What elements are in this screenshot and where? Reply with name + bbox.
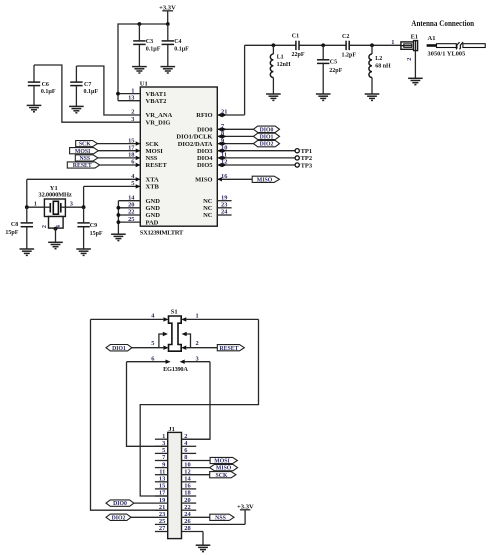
svg-text:1: 1 [162,433,165,440]
svg-text:TP3: TP3 [301,162,313,169]
wire S1 pin4 to J1 pin21 [91,319,168,510]
U1 pin 20 GND [118,202,160,213]
J1 pin 10 [182,461,210,468]
svg-text:4: 4 [151,312,155,319]
ground (crystal case) [48,242,63,248]
capacitor C1 22pF [292,34,305,58]
crystal Y1 32.0000MHz [38,185,72,217]
ground (L2) [365,94,380,100]
wire XTB riser [83,186,85,207]
svg-text:MOSI: MOSI [214,459,230,465]
svg-text:2: 2 [41,225,48,228]
capacitor C5 22pF [317,45,343,93]
svg-text:23: 23 [221,202,227,209]
net tag NSS [75,155,98,162]
J1 pin 6 [182,447,197,454]
svg-text:24: 24 [184,511,191,518]
J1 pin 14 [182,476,197,483]
capacitor C8 15pF [5,207,33,249]
S1 pin 2 [181,340,217,350]
ground (C7) [69,106,84,112]
svg-text:1: 1 [34,201,37,208]
svg-text:RESET: RESET [73,163,92,169]
capacitor C7 0.1uF [70,66,98,106]
capacitor C6 0.1uF [28,65,56,105]
switch S1 EG1390A [163,308,188,373]
svg-text:DIO1: DIO1 [112,346,126,352]
U1 pin 23 NC [203,202,231,213]
net tag RESET (S1) [217,345,244,352]
wire S1 pin6 to J1 pin3 [127,362,168,447]
svg-text:16: 16 [221,173,228,180]
J1 pin 3 [155,440,168,447]
svg-text:12nH: 12nH [277,62,291,68]
ground (L1) [266,94,281,100]
svg-text:24: 24 [221,209,228,216]
U1 pin 21 RFIO [196,109,244,120]
svg-text:15: 15 [128,137,134,144]
U1 pin 8 DIO1/DCLK [176,130,253,141]
power +3.3V (J1 pin 26) [237,503,254,524]
svg-text:RESET: RESET [146,162,168,169]
wire E1 shield to ground [414,51,416,78]
U1 pin 24 NC [203,209,231,220]
crystal Y1 case [41,217,63,229]
svg-text:DIO0: DIO0 [113,501,127,507]
svg-text:RFIO: RFIO [196,112,212,119]
J1 pin 16 [182,483,197,490]
svg-text:C5: C5 [330,59,337,65]
net tag NSS (J1) [210,514,234,521]
J1 pin 28 [182,525,204,532]
test point TP1 [295,148,312,155]
U1 pin 16 MISO [195,173,252,184]
svg-text:MISO: MISO [257,177,273,183]
svg-text:MOSI: MOSI [75,149,91,155]
junction GND pin20 [117,206,121,210]
svg-text:19: 19 [221,194,227,201]
J1 pin 26 [182,518,246,525]
svg-text:L1: L1 [277,55,284,61]
svg-text:5: 5 [151,340,154,347]
ground (J1 pin 28) [196,545,211,551]
wire GND bus [117,201,119,235]
U1 pin 5 XTB [84,180,160,191]
wire C7 to VR_ANA [76,66,140,115]
net tag MOSI (J1) [210,457,237,464]
J1 pin 22 [182,504,197,511]
svg-text:XTA: XTA [146,177,160,184]
Y1 pin 3 [65,201,83,208]
svg-text:DIO0: DIO0 [197,127,213,134]
wire crystal case to ground [55,228,57,242]
net tag MISO [252,176,279,183]
svg-text:RESET: RESET [219,346,238,352]
svg-text:10: 10 [221,144,227,151]
svg-text:10: 10 [184,461,190,468]
svg-text:27: 27 [159,525,166,532]
svg-text:C7: C7 [84,82,91,88]
U1 pin 1 VBAT1 [118,87,166,98]
svg-text:S1: S1 [171,308,178,315]
svg-text:E1: E1 [411,34,419,41]
J1 pin 4 [182,440,197,447]
svg-text:1: 1 [391,39,394,46]
svg-text:TP2: TP2 [301,155,313,162]
J1 pin 19 [134,497,168,504]
svg-text:2: 2 [184,433,187,440]
inductor L2 68nH [369,45,391,93]
svg-text:9: 9 [162,461,165,468]
svg-text:28: 28 [184,525,190,532]
svg-text:NSS: NSS [146,155,158,162]
svg-text:C4: C4 [174,39,181,45]
net tag DIO2 (J1) [106,514,131,521]
svg-text:13: 13 [128,94,134,101]
svg-text:C8: C8 [11,222,18,228]
antenna A1 3050/1 YL005 [427,35,486,57]
svg-text:DIO4: DIO4 [197,155,213,162]
net tag SCK (J1) [210,472,236,479]
svg-text:C1: C1 [292,34,299,40]
svg-text:C9: C9 [90,223,97,229]
svg-text:3: 3 [70,201,73,208]
svg-text:3: 3 [196,355,199,362]
U1 pin 18 NSS [98,152,158,163]
svg-text:1.2pF: 1.2pF [342,53,357,59]
svg-text:11: 11 [221,152,227,159]
power +3.3V (top) [159,4,176,24]
S1 internal contact right [182,332,191,348]
svg-text:15pF: 15pF [5,230,18,236]
U1 pin 19 NC [203,194,231,205]
junction GND pin22 [117,213,121,217]
svg-text:PAD: PAD [146,219,159,226]
svg-text:DIO1: DIO1 [260,135,274,141]
svg-text:XTB: XTB [146,184,160,191]
svg-text:0.1µF: 0.1µF [41,89,56,95]
svg-text:DIO2: DIO2 [260,142,274,148]
S1 pin 1 [181,312,258,321]
net tag DIO1 [253,133,279,140]
J1 pin 1 [155,433,168,440]
svg-text:22pF: 22pF [292,52,305,58]
svg-text:Antenna Connection: Antenna Connection [411,19,474,28]
J1 pin 13 [155,476,168,483]
svg-text:SCK: SCK [216,473,228,479]
ground (C4) [161,67,176,73]
svg-text:TP1: TP1 [301,148,313,155]
U1 pin 2 VR_ANA [131,109,172,120]
net tag DIO1 (S1) [106,345,132,352]
svg-text:GND: GND [146,205,161,212]
wire power rail to VBAT [118,24,168,101]
ground (C5) [316,94,331,100]
svg-text:19: 19 [159,497,165,504]
U1 pin 9 DIO2/DATA [178,137,254,148]
J1 pin 11 [155,468,168,475]
svg-text:C2: C2 [342,34,349,40]
U1 pin 14 GND [118,194,160,205]
svg-text:11: 11 [159,468,165,475]
svg-text:L2: L2 [375,56,382,62]
junction crystal node B (XTB/C9) [82,205,86,209]
svg-text:8: 8 [221,130,224,137]
S1 internal contact left [159,332,168,348]
net tag SCK [76,141,98,148]
ground (C6) [27,105,42,111]
J1 pin 18 [182,490,197,497]
svg-text:VR_ANA: VR_ANA [146,112,173,119]
svg-text:1: 1 [131,87,134,94]
U1 pin 4 XTA [27,173,159,184]
svg-text:20: 20 [184,497,190,504]
Y1 pin 1 [27,201,45,208]
svg-text:25: 25 [159,518,165,525]
svg-text:DIO1/DCLK: DIO1/DCLK [176,134,212,141]
svg-text:15pF: 15pF [90,231,103,237]
J1 pin 8 [182,454,211,461]
svg-text:MOSI: MOSI [146,148,164,155]
test point TP3 [295,162,313,169]
J1 pin 15 [155,483,168,490]
svg-text:3050/1 YL005: 3050/1 YL005 [428,50,466,57]
svg-text:18: 18 [184,490,190,497]
test point TP2 [295,155,312,162]
op-amp U1 body SX1239IMLTRT [140,81,218,237]
svg-text:17: 17 [128,144,135,151]
wire XTA riser [26,179,28,207]
svg-text:VBAT1: VBAT1 [146,91,167,98]
svg-text:2: 2 [406,57,413,60]
U1 pin 6 RESET [100,159,168,170]
svg-text:22: 22 [128,209,134,216]
capacitor C9 15pF [77,207,103,249]
J1 pin 12 [182,468,210,475]
inductor L1 12nH [270,45,291,93]
svg-text:18: 18 [128,152,134,159]
J1 pin 25 [155,518,168,525]
U1 pin 11 DIO4 [197,152,295,163]
svg-text:0.1µF: 0.1µF [146,46,161,52]
ground (E1) [408,78,423,84]
svg-text:3: 3 [131,116,134,123]
svg-text:C6: C6 [42,82,49,88]
wire RF rail [245,44,401,46]
wire S1 pin1 to J1 pin17 [140,319,258,496]
svg-text:SX1239IMLTRT: SX1239IMLTRT [140,229,184,236]
svg-text:C3: C3 [146,39,153,45]
net tag DIO2 [253,140,279,147]
capacitor C2 1.2pF [342,34,357,59]
svg-text:26: 26 [184,518,191,525]
svg-text:20: 20 [128,202,134,209]
J1 pin 7 [155,454,168,461]
J1 pin 27 [155,525,168,532]
net tag MOSI [70,148,99,155]
junction VBAT tap [116,92,120,96]
svg-text:GND: GND [146,198,161,205]
svg-text:8: 8 [184,454,187,461]
svg-text:A1: A1 [428,35,436,42]
wire RFIO riser [244,45,246,115]
U1 pin 3 VR_DIG [131,116,170,127]
svg-text:0.1µF: 0.1µF [84,89,99,95]
junction C4/power rail [166,22,170,26]
J1 pin 5 [155,447,168,454]
J1 pin 23 [131,511,168,518]
U1 pin 22 GND [118,209,160,220]
svg-text:GND: GND [146,212,161,219]
wire C6 to VR_DIG [34,65,140,122]
wire S1 pin3 to J1 pin2 [182,362,211,440]
svg-text:5: 5 [131,180,134,187]
svg-text:14: 14 [128,194,135,201]
svg-text:DIO0: DIO0 [260,127,274,133]
J1 pin 20 [182,497,197,504]
svg-text:MISO: MISO [216,466,232,472]
S1 pin 5 [132,340,169,350]
ground (C8) [20,249,35,255]
U1 pin 15 SCK [97,137,158,148]
J1 pin 24 [182,511,210,518]
svg-text:9: 9 [221,137,224,144]
svg-text:32.0000MHz: 32.0000MHz [38,192,72,199]
net tag DIO0 (J1) [106,500,134,507]
svg-text:2: 2 [131,109,134,116]
svg-text:DIO2: DIO2 [112,515,126,521]
svg-text:NSS: NSS [79,156,90,162]
svg-text:DIO5: DIO5 [197,162,213,169]
connector E1 [401,34,418,51]
svg-text:EG1390A: EG1390A [163,366,188,373]
svg-text:68 nH: 68 nH [375,63,391,69]
capacitor C3 0.1uF [133,24,161,66]
svg-text:SCK: SCK [79,142,91,148]
S1 pin 4 [91,312,169,321]
junction crystal case [54,227,58,231]
svg-text:VBAT2: VBAT2 [146,98,167,105]
svg-text:17: 17 [159,490,166,497]
svg-text:23: 23 [159,511,165,518]
U1 pin 17 MOSI [98,144,163,155]
net tag DIO0 [253,126,279,133]
svg-text:SCK: SCK [146,141,159,148]
junction L1 [272,43,276,47]
svg-text:2: 2 [196,340,199,347]
J1 pin 9 [155,461,168,468]
svg-text:NC: NC [203,212,213,219]
junction GND pin25 [117,220,121,224]
svg-text:12: 12 [184,468,190,475]
S1 pin 6 [127,355,171,364]
svg-text:VR_DIG: VR_DIG [146,119,171,126]
svg-text:12: 12 [221,159,227,166]
capacitor C4 0.1uF [162,24,190,66]
svg-text:21: 21 [221,109,227,116]
svg-text:22pF: 22pF [329,68,342,74]
U1 pin 12 DIO5 [197,159,295,170]
net tag RESET [67,162,99,169]
J1 pin 2 [182,433,211,440]
svg-text:0.1µF: 0.1µF [174,46,189,52]
svg-text:3: 3 [162,440,165,447]
junction C3/power rail [138,22,142,26]
svg-text:1: 1 [196,312,199,319]
J1 pin 21 [155,504,168,511]
S1 pin 3 [180,355,210,364]
svg-text:DIO2/DATA: DIO2/DATA [178,141,213,148]
U1 pin 13 VBAT2 [118,94,166,105]
svg-text:15: 15 [159,483,165,490]
svg-text:DIO3: DIO3 [197,148,213,155]
svg-text:U1: U1 [140,81,148,88]
ground (C9) [76,249,91,255]
U1 pin 7 DIO0 [197,123,253,134]
svg-text:13: 13 [159,476,165,483]
svg-text:22: 22 [184,504,190,511]
junction C5 [321,43,325,47]
svg-text:MISO: MISO [195,177,212,184]
svg-text:16: 16 [184,483,191,490]
svg-text:14: 14 [184,476,191,483]
svg-text:NC: NC [203,198,213,205]
U1 pin 10 DIO3 [197,144,295,155]
svg-text:NSS: NSS [215,515,226,521]
net tag MISO (J1) [210,464,238,471]
svg-text:5: 5 [162,447,165,454]
wire J1 pin 28 to ground [202,532,204,546]
junction L2 [370,43,374,47]
ground (C3) [132,67,147,73]
svg-text:25: 25 [128,216,134,223]
connector J1 [168,426,182,538]
junction crystal node A (XTA/C8) [25,205,29,209]
ground (U1 GND bus) [111,234,126,240]
svg-text:21: 21 [159,504,165,511]
U1 pin 25 PAD [118,216,158,227]
J1 pin 17 [155,490,168,497]
svg-text:NC: NC [203,205,213,212]
